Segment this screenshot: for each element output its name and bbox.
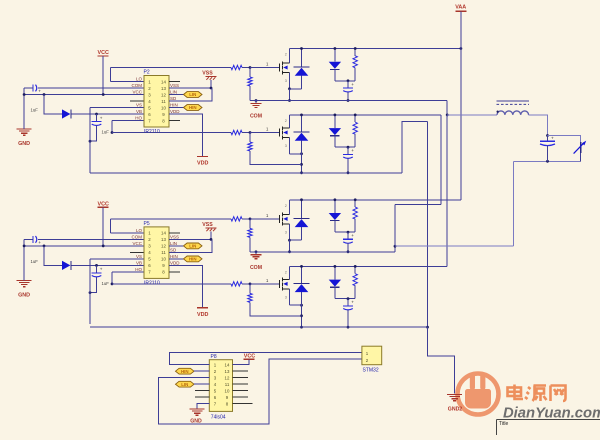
svg-text:11: 11 [225, 382, 230, 387]
wire VCC pin3 [24, 245, 144, 247]
transistor Q4 N-MOSFET [279, 280, 281, 288]
svg-text:COM: COM [250, 114, 262, 120]
wire LO pin1 [111, 81, 145, 83]
wire to lower MOSFET gate [250, 283, 280, 285]
IC P2 IR2110 gate driver [144, 76, 169, 128]
wire VB pin6 [72, 264, 145, 266]
svg-text:3: 3 [285, 79, 287, 83]
svg-text:VCC: VCC [132, 90, 142, 95]
wire Q4 source [289, 289, 291, 305]
svg-text:VS: VS [136, 254, 142, 259]
svg-text:VDD: VDD [170, 109, 180, 114]
snubber diode Q1 [334, 49, 336, 62]
wire source to rail [289, 89, 291, 101]
capacitor output C [547, 136, 549, 142]
svg-text:LIN: LIN [181, 382, 188, 387]
gate resistor upper2 [231, 217, 242, 221]
wire to lower MOSFET gate [250, 132, 280, 134]
svg-text:Title: Title [499, 421, 508, 427]
gate pulldown resistor Q4 [249, 284, 251, 294]
svg-text:10: 10 [161, 257, 166, 262]
wire [23, 88, 25, 129]
svg-text:3: 3 [285, 230, 287, 234]
svg-text:HO: HO [135, 116, 142, 121]
body diode Q4 [301, 266, 303, 283]
svg-text:13: 13 [225, 369, 230, 374]
svg-text:VDD: VDD [197, 312, 208, 318]
wire VCC pin3 [24, 94, 144, 96]
snubber capacitor Q1 [347, 81, 349, 88]
wire HO to lower gate [111, 272, 113, 284]
svg-text:+: + [100, 115, 103, 120]
svg-text:2: 2 [285, 270, 287, 274]
svg-text:STM32: STM32 [363, 368, 379, 374]
svg-text:+: + [351, 300, 354, 305]
wire pin14 to VCC [233, 359, 250, 364]
wire pin8 stub [169, 271, 180, 273]
svg-text:LIN: LIN [189, 92, 196, 97]
wire [23, 239, 25, 280]
svg-text:VSS: VSS [170, 83, 179, 88]
wire return horizontal [395, 203, 441, 205]
power VDD2 symbol [169, 265, 203, 307]
wire cell1 bottom rail (phase A) [250, 100, 447, 102]
svg-text:LO: LO [136, 77, 143, 82]
wire right stub pin11 [233, 383, 249, 385]
svg-text:14: 14 [225, 363, 230, 368]
wire phase to inductor [447, 114, 497, 116]
wire LO to upper gate [110, 219, 112, 233]
svg-text:2: 2 [285, 53, 287, 57]
wire cap to load [548, 136, 581, 142]
power VCC1 symbol [98, 55, 109, 57]
svg-text:VSS: VSS [202, 71, 213, 77]
ground GND2 symbol [447, 394, 462, 396]
svg-text:+: + [100, 267, 103, 272]
wire load bottom [580, 153, 582, 161]
svg-text:74ls04: 74ls04 [211, 414, 226, 420]
svg-text:HIN: HIN [170, 254, 178, 259]
wire snubber junction [335, 231, 355, 233]
wire cell4 bottom rail / VS2 net [90, 326, 428, 328]
wire bus to GND2 [427, 122, 429, 328]
svg-text:12: 12 [225, 376, 230, 381]
svg-text:P8: P8 [211, 354, 217, 360]
wire cap return riser [512, 161, 514, 246]
wire pin8 stub [169, 120, 180, 122]
svg-text:GND: GND [18, 141, 30, 147]
svg-text:VB: VB [136, 260, 142, 265]
wire VCC supply [102, 207, 104, 246]
gate pulldown resistor Q3 [249, 219, 251, 229]
svg-text:COM: COM [250, 265, 262, 271]
wire source to rail [301, 305, 303, 327]
wire VS net vertical [89, 259, 91, 324]
wire upper gate drive [111, 67, 232, 69]
svg-text:1uF: 1uF [31, 108, 39, 113]
wire right stub pin9 [233, 396, 249, 398]
bootstrap diode D2 [44, 246, 62, 266]
svg-text:VCC: VCC [132, 241, 142, 246]
svg-text:HIN: HIN [189, 257, 197, 262]
svg-text:11: 11 [161, 99, 166, 104]
svg-text:2: 2 [285, 204, 287, 208]
svg-text:VCC: VCC [98, 201, 109, 207]
port HIN3 [176, 368, 195, 374]
gate resistor upper1 [231, 65, 242, 69]
wire snubber junction [335, 146, 355, 148]
svg-text:VS: VS [136, 103, 142, 108]
port HIN2 [169, 258, 184, 260]
wire VSS pin13 [169, 87, 212, 89]
capacitor 1uF (left)2 [32, 236, 34, 243]
wire pin4 stub [130, 100, 144, 102]
inductor L1 [497, 111, 529, 115]
ground GND2 symbol [17, 279, 32, 281]
port LIN3 [176, 381, 195, 387]
wire bootstrap cap to VS net [90, 125, 97, 141]
snubber capacitor Q2 [347, 147, 349, 154]
connector U2 STM32 [362, 346, 382, 365]
snubber capacitor Q3 [347, 232, 349, 239]
wire bootstrap cap to VS net [90, 277, 97, 293]
svg-text:HIN: HIN [189, 105, 197, 110]
svg-text:12: 12 [161, 244, 166, 249]
node VAA rail / wire cell1 top rail [290, 48, 461, 50]
ground VSS1 symbol [206, 76, 217, 78]
wire to upper MOSFET gate [250, 218, 280, 220]
wire cell4 top rail [290, 265, 448, 267]
inductor core [497, 100, 530, 102]
wire cell2 top rail [290, 114, 442, 116]
ground COM2 symbol [255, 250, 258, 253]
svg-text:GND: GND [190, 418, 202, 424]
wire cell2 bottom rail / VS1 net [90, 172, 402, 174]
wire pin8 stub [233, 403, 253, 405]
wire pin14 stub [169, 81, 180, 83]
wire cell3 bottom rail [250, 251, 395, 253]
svg-text:LIN: LIN [170, 241, 177, 246]
wire COM pin2 [24, 238, 33, 240]
wire SD pin11 to VSS [169, 239, 212, 252]
svg-text:1uF: 1uF [31, 259, 39, 264]
gate pulldown resistor Q1 [249, 68, 251, 78]
svg-text:P5: P5 [144, 221, 150, 227]
svg-text:10: 10 [161, 105, 166, 110]
wire VCC supply [102, 56, 104, 95]
wire inductor to cap [529, 115, 548, 136]
body diode Q1 [301, 49, 303, 67]
svg-text:VB: VB [136, 109, 142, 114]
svg-text:COM: COM [132, 83, 143, 88]
wire pin3 loop to STM32 pin2 [158, 359, 362, 424]
gate resistor lower2 [231, 282, 242, 286]
load RL [580, 142, 582, 153]
transistor Q2 N-MOSFET [279, 129, 281, 137]
ground COM1 symbol [255, 99, 258, 102]
wire right stub pin13 [233, 370, 249, 372]
snubber diode Q4 [334, 266, 336, 279]
transistor Q3 N-MOSFET [279, 215, 281, 223]
port HIN1 [169, 107, 184, 109]
port LIN1 [169, 94, 184, 96]
svg-text:HIN: HIN [181, 369, 189, 374]
wire return drop [394, 204, 396, 246]
svg-text:LIN: LIN [189, 244, 196, 249]
svg-text:SD: SD [170, 96, 177, 101]
snubber resistor Q2 [354, 115, 356, 122]
svg-text:COM: COM [132, 234, 143, 239]
snubber diode Q3 [334, 200, 336, 213]
watermark DianYuan logo [458, 374, 499, 415]
wire cell3 top rail [290, 199, 461, 201]
wire SD pin11 to VSS [169, 88, 212, 101]
IC P5 IR2110 gate driver [144, 227, 169, 279]
svg-text:VDD: VDD [170, 260, 180, 265]
wire source to rail [289, 240, 291, 252]
wire upper gate drive [111, 218, 232, 220]
wire pin5 stub [195, 390, 209, 392]
svg-text:HIN: HIN [170, 103, 178, 108]
body diode Q2 [301, 115, 303, 132]
power VDD1 symbol [169, 114, 203, 156]
svg-text:GND2: GND2 [448, 407, 463, 413]
body diode Q3 [301, 200, 303, 219]
svg-text:VSS: VSS [170, 234, 179, 239]
wire Q3 drain [289, 200, 291, 215]
gate pulldown resistor Q2 [249, 133, 251, 143]
svg-text:1uF: 1uF [102, 281, 110, 286]
svg-text:12: 12 [161, 92, 166, 97]
svg-text:SD: SD [170, 247, 177, 252]
wire HO pin7 [112, 120, 144, 122]
snubber resistor Q3 [354, 200, 356, 207]
wire Q2 source [289, 138, 291, 154]
snubber diode Q2 [334, 115, 336, 128]
wire pin1 loop to STM32 pin1 [169, 353, 362, 365]
wire cell3 rail riser [394, 246, 396, 252]
wire Q1 source [289, 73, 291, 89]
svg-text:GND: GND [18, 292, 30, 298]
wire Q1 drain [289, 49, 291, 63]
wire Q3 source [289, 224, 291, 240]
title block [497, 419, 600, 421]
bootstrap capacitor 1uF1 [96, 114, 98, 122]
wire cap return [395, 245, 513, 247]
port LIN2 [169, 245, 184, 247]
wire right stub pin12 [233, 377, 249, 379]
wire VS pin5 [90, 258, 144, 260]
wire pin14 stub [169, 232, 180, 234]
svg-text:LO: LO [136, 228, 143, 233]
wire phase drop [446, 101, 448, 115]
wire VS pin5 [90, 107, 144, 109]
svg-text:+: + [38, 240, 41, 245]
wire VSS pin13 [169, 238, 212, 240]
wire Q2 drain [289, 115, 291, 128]
svg-text:VAA: VAA [455, 5, 466, 11]
svg-text:VSS: VSS [202, 222, 213, 228]
wire COM pin2 [24, 87, 33, 89]
svg-text:+: + [351, 82, 354, 87]
wire GND2 run [428, 327, 455, 393]
wire right stub pin10 [233, 390, 249, 392]
wire HO pin7 [112, 271, 144, 273]
svg-text:14: 14 [161, 231, 166, 236]
svg-text:HO: HO [135, 267, 142, 272]
wire snubber junction [335, 298, 355, 300]
wire lower gate drive [112, 283, 231, 285]
wire snubber junction [335, 80, 355, 82]
svg-text:+: + [351, 233, 354, 238]
snubber capacitor Q4 [347, 299, 349, 306]
wire HO to lower gate [111, 121, 113, 133]
wire lower gate drive [112, 132, 231, 134]
wire source to rail [301, 154, 303, 173]
bootstrap capacitor 1uF2 [96, 265, 98, 273]
IC P8 74ls04 hex inverter [209, 360, 232, 412]
snubber resistor Q1 [354, 49, 356, 56]
wire VS1 riser [402, 122, 428, 173]
wire VB pin6 [72, 113, 145, 115]
wire output bottom [513, 160, 580, 162]
wire pin4 stub [130, 251, 144, 253]
wire VS net vertical [89, 108, 91, 173]
svg-text:VDD: VDD [197, 161, 208, 167]
svg-text:13: 13 [161, 237, 166, 242]
wire cell2 drain return [440, 115, 442, 204]
ground GND1 symbol [17, 128, 32, 130]
ground GND3 symbol [197, 404, 209, 409]
svg-text:11: 11 [161, 250, 166, 255]
svg-text:+: + [551, 136, 554, 141]
svg-text:P2: P2 [144, 70, 150, 76]
bootstrap diode D1 [44, 95, 62, 115]
svg-text:10: 10 [225, 389, 230, 394]
snubber resistor Q4 [354, 266, 356, 273]
svg-text:+: + [351, 148, 354, 153]
ground VSS2 symbol [206, 227, 217, 229]
transistor Q1 N-MOSFET [279, 64, 281, 72]
wire VAA vertical [460, 11, 462, 200]
wire LO pin1 [111, 232, 145, 234]
wire pin6 stub [195, 396, 209, 398]
svg-text:3: 3 [285, 144, 287, 148]
svg-text:14: 14 [161, 79, 166, 84]
power VCC2 symbol [98, 206, 109, 208]
svg-text:2: 2 [285, 119, 287, 123]
svg-text:3: 3 [285, 295, 287, 299]
svg-text:LIN: LIN [170, 90, 177, 95]
watermark chinese text 电源网 [508, 385, 566, 402]
svg-text:VCC: VCC [98, 50, 109, 56]
svg-text:+: + [38, 89, 41, 94]
svg-text:13: 13 [161, 86, 166, 91]
wire to upper MOSFET gate [250, 67, 280, 69]
wire LO to upper gate [110, 68, 112, 82]
svg-text:1uF: 1uF [102, 130, 110, 135]
gate resistor lower1 [231, 130, 242, 134]
capacitor 1uF (left)1 [32, 85, 34, 92]
wire phase to lower bridge [446, 115, 448, 267]
wire Q4 drain [289, 266, 291, 279]
